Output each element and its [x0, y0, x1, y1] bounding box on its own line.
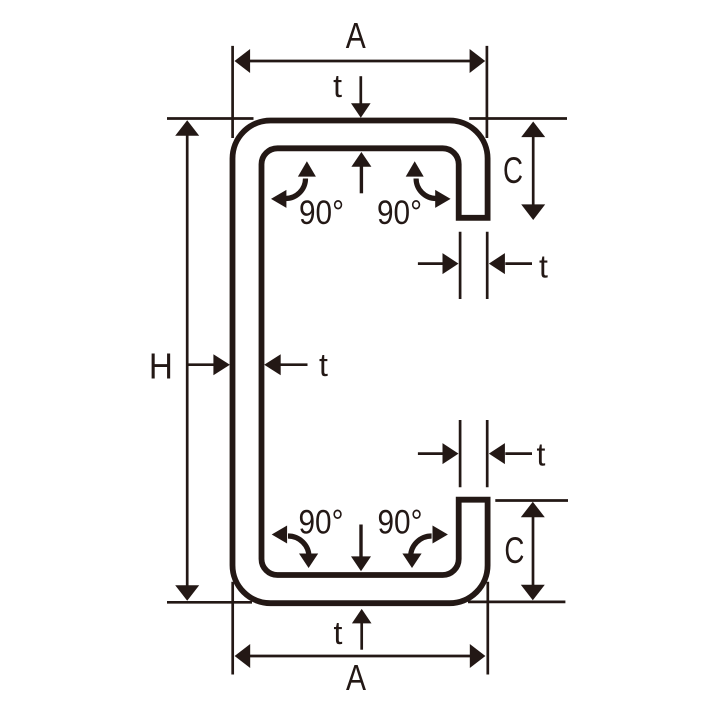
- svg-text:C: C: [503, 150, 523, 191]
- svg-text:A: A: [346, 15, 366, 56]
- svg-text:90°: 90°: [299, 194, 344, 232]
- svg-text:90°: 90°: [378, 504, 423, 542]
- svg-text:C: C: [504, 530, 524, 571]
- svg-text:t: t: [537, 437, 546, 473]
- svg-text:H: H: [149, 346, 173, 387]
- svg-text:90°: 90°: [299, 504, 344, 542]
- svg-text:t: t: [334, 615, 343, 651]
- svg-text:t: t: [319, 347, 328, 383]
- svg-text:t: t: [333, 68, 342, 104]
- svg-text:t: t: [539, 249, 548, 285]
- svg-text:90°: 90°: [377, 194, 422, 232]
- svg-text:A: A: [346, 657, 366, 698]
